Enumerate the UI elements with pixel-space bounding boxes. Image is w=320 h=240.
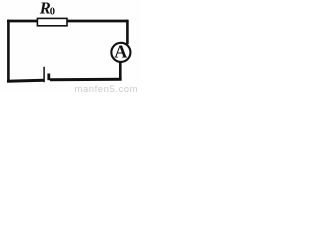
svg-text:A: A: [114, 42, 127, 62]
svg-text:manfen5.com: manfen5.com: [75, 84, 139, 94]
wire right upper vertical: [126, 20, 129, 45]
wire right lower vertical: [119, 62, 122, 81]
wire bottom-right segment: [50, 78, 122, 82]
battery positive plate (long): [43, 67, 45, 82]
resistor R0: [37, 18, 67, 25]
background: [0, 0, 142, 94]
wire left vertical: [7, 20, 10, 82]
ammeter A: [111, 43, 130, 62]
battery negative plate (short): [47, 74, 50, 81]
wire top-left segment: [7, 20, 38, 23]
svg-text:0: 0: [50, 7, 55, 18]
wire bottom-left segment: [7, 79, 44, 83]
wire top-right segment: [67, 20, 128, 23]
